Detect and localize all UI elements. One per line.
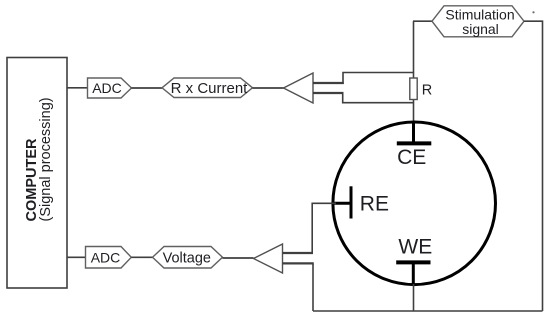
U2 lower input stub — [313, 92, 344, 94]
wire stimulation tag to right rail — [524, 21, 543, 311]
U2 upper input stub — [313, 82, 344, 84]
wire U3 upper input to RE — [312, 203, 336, 254]
wire ADC1 to R x Current tag — [132, 87, 163, 89]
wire U2 upper input to node above R — [343, 73, 414, 85]
wire tag to op-amp U2 output — [253, 87, 284, 89]
WE electrode bar — [396, 260, 430, 264]
U3 upper input stub — [283, 252, 314, 254]
speck — [532, 11, 534, 13]
svg-text:signal: signal — [462, 21, 499, 37]
svg-text:ADC: ADC — [91, 249, 121, 265]
stimulation signal tag — [432, 6, 524, 37]
svg-text:Stimulation: Stimulation — [445, 6, 514, 22]
signal tag R x Current — [162, 78, 253, 98]
WE electrode stem — [412, 262, 415, 285]
wire computer to ADC1 — [67, 87, 88, 89]
svg-text:CE: CE — [397, 146, 426, 169]
svg-text:(Signal processing): (Signal processing) — [38, 97, 54, 221]
svg-text:RE: RE — [360, 192, 389, 215]
signal tag Voltage — [153, 247, 223, 269]
wire WE to bottom rail — [413, 284, 415, 311]
ADC converter 1 — [88, 78, 132, 98]
op-amp U2 (current amplifier, output left) — [284, 73, 314, 103]
computer box — [7, 58, 67, 289]
ADC converter 2 — [86, 247, 132, 269]
cell circle — [333, 122, 496, 285]
main vertical wire: stimulation node down to cell — [413, 21, 415, 130]
op-amp U3 (voltage follower, output left) — [254, 244, 283, 273]
svg-text:WE: WE — [398, 235, 432, 258]
svg-text:R: R — [422, 83, 432, 99]
resistor R1 — [410, 78, 417, 100]
CE electrode bar — [397, 141, 432, 145]
RE electrode stem — [332, 202, 350, 205]
svg-text:ADC: ADC — [92, 80, 122, 96]
wire stimulation tag to main vertical — [413, 20, 432, 22]
wire voltage tag to op-amp U3 — [223, 257, 254, 259]
wire U3 lower input to bottom rail — [312, 264, 314, 311]
svg-text:Voltage: Voltage — [163, 251, 211, 267]
bottom rail — [313, 310, 543, 312]
svg-text:R x Current: R x Current — [171, 80, 249, 97]
RE electrode bar — [350, 186, 353, 218]
wire computer to ADC2 — [67, 256, 86, 258]
wire ADC2 to voltage tag — [131, 256, 152, 258]
wire U2 lower input to node below R — [343, 92, 414, 103]
U3 lower input stub — [283, 262, 314, 264]
CE electrode stem — [412, 121, 415, 143]
